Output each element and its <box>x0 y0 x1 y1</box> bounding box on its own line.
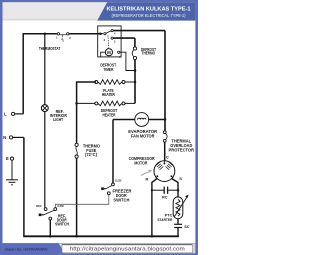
svg-text:(REFRIGERATOR ELECTRICAL TYPE-: (REFRIGERATOR ELECTRICAL TYPE-1) <box>112 13 187 18</box>
svg-text:FAN MOTOR: FAN MOTOR <box>131 133 155 138</box>
svg-text:M: M <box>107 50 111 55</box>
svg-text:TIMER: TIMER <box>103 67 114 72</box>
svg-text:STARTER: STARTER <box>157 217 172 222</box>
svg-text:SWITCH: SWITCH <box>55 222 69 227</box>
svg-text:N: N <box>3 135 6 140</box>
svg-text:CLOSE: CLOSE <box>57 204 64 208</box>
svg-text:HEATER: HEATER <box>102 92 116 97</box>
svg-text:drawn by: HERMAWAN: drawn by: HERMAWAN <box>5 248 48 252</box>
svg-text:CLOSE: CLOSE <box>115 178 122 182</box>
svg-text:THERMOSTAT: THERMOSTAT <box>39 46 61 51</box>
svg-text:RC: RC <box>162 196 168 200</box>
svg-text:E: E <box>6 156 9 161</box>
svg-text:SWITCH: SWITCH <box>113 198 129 203</box>
svg-text:L: L <box>4 112 7 117</box>
svg-text:(72°C): (72°C) <box>85 152 98 157</box>
svg-text:SC: SC <box>184 225 190 229</box>
svg-text:HEATER: HEATER <box>103 112 117 117</box>
svg-text:KELISTRIKAN KULKAS TYPE-1: KELISTRIKAN KULKAS TYPE-1 <box>107 7 192 13</box>
svg-text:http://citrapelanginusantara.b: http://citrapelanginusantara.blogspot.co… <box>70 247 185 253</box>
svg-text:R: R <box>146 178 149 182</box>
svg-text:THERMO: THERMO <box>142 51 156 56</box>
svg-text:MOTOR: MOTOR <box>134 160 148 165</box>
svg-text:PROTECTOR: PROTECTOR <box>169 148 195 153</box>
svg-text:C: C <box>166 156 169 160</box>
svg-text:OPEN: OPEN <box>36 204 42 208</box>
svg-text:LIGHT: LIGHT <box>53 117 63 122</box>
